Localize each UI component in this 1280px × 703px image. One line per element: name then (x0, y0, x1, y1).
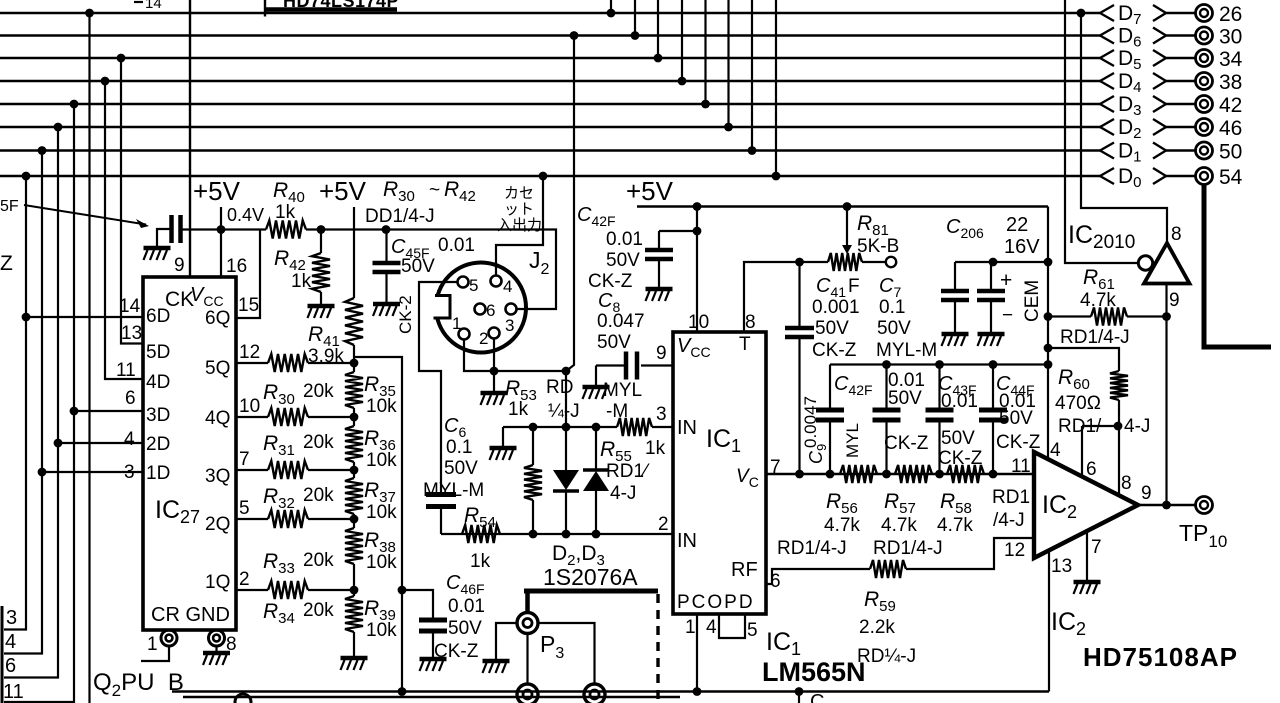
svg-text:2D: 2D (146, 434, 170, 455)
wire: P3 left ground leg (496, 623, 517, 659)
resistor R57 4.7k (895, 465, 932, 483)
diode D3 1S2076A (595, 427, 597, 470)
J2 pin 6 circle (475, 304, 486, 315)
svg-text:38: 38 (1219, 71, 1242, 94)
wire: J2 pin 4 riser to bus (496, 230, 543, 276)
inverter IC2010 triangle (1144, 243, 1190, 284)
IC HD74LS174P label (cut off) (134, 0, 399, 17)
wire: J2 pin 1 line (464, 340, 566, 372)
wire: +5V stub to pin16 (220, 207, 222, 277)
svg-text:50V: 50V (401, 256, 435, 277)
ground (C8) (583, 385, 610, 390)
capacitor C45F (385, 230, 387, 262)
svg-text:+5V: +5V (319, 176, 367, 206)
svg-text:2.2k: 2.2k (859, 617, 895, 638)
wire: bus drop to IC27 pin3 (1D) and exit 4 (4, 151, 42, 654)
svg-text:6: 6 (5, 655, 16, 677)
svg-text:5F: 5F (0, 198, 19, 215)
P3 top circle (517, 613, 538, 634)
svg-text:HD75108AP: HD75108AP (1083, 642, 1238, 672)
svg-text:CEM: CEM (1022, 280, 1043, 322)
svg-text:1: 1 (147, 634, 158, 655)
svg-text:T: T (739, 334, 751, 355)
svg-text:30: 30 (1219, 26, 1242, 49)
capacitor C46F 0.01 (419, 620, 447, 631)
wire: 74LS174 output drop to bus line 7 (751, 0, 753, 151)
svg-text:20k: 20k (303, 432, 334, 453)
resistor R31 20k row (236, 416, 268, 418)
wire: IC27 pin 9 clock line from top (189, 0, 191, 277)
svg-text:4D: 4D (146, 372, 170, 393)
svg-text:0.047: 0.047 (597, 311, 645, 332)
ground (ladder bottom) (341, 656, 368, 661)
resistor R53 1k (vertical) (532, 427, 534, 465)
wire: IC2010 input from top (1065, 0, 1138, 263)
wire: top node left ground stub (502, 427, 504, 447)
svg-text:9: 9 (174, 255, 185, 276)
capacitor C41F 0.001 (798, 262, 800, 326)
svg-text:Z: Z (0, 252, 13, 275)
wire: data bus line D4 with connector pin 38 (0, 70, 1242, 96)
svg-text:50V: 50V (999, 408, 1033, 429)
wire: data bus line D6 with connector pin 30 (0, 25, 1242, 51)
wire: IC2 pin 13 to bottom line (1048, 551, 1050, 692)
svg-text:RD1/: RD1/ (1058, 416, 1102, 437)
resistor R33 20k row (236, 518, 268, 520)
svg-text:6Q: 6Q (205, 308, 230, 329)
resistor R35 10k (ladder) (353, 363, 355, 372)
label cassette I/O (Japanese) (497, 185, 542, 234)
svg-text:PCOPD: PCOPD (677, 592, 755, 613)
IC27 pin 8 circle (209, 630, 225, 646)
wire: IC27 pin 1 stub (141, 646, 169, 661)
wire: data bus line D5 with connector pin 34 (0, 47, 1243, 73)
svg-text:LM565N: LM565N (762, 657, 866, 687)
svg-text:CK-Z: CK-Z (812, 340, 857, 361)
wire: DAC node to C46F (402, 590, 433, 618)
svg-text:1k: 1k (508, 399, 529, 420)
svg-text:20k: 20k (303, 550, 334, 571)
svg-text:1k: 1k (470, 551, 491, 572)
svg-text:1S2076A: 1S2076A (543, 564, 638, 590)
svg-text:9: 9 (656, 343, 667, 364)
J2 pin 5 circle (458, 277, 469, 288)
wire: data bus line D2 with connector pin 46 (0, 116, 1242, 142)
svg-text:9: 9 (1169, 290, 1180, 311)
svg-text:50V: 50V (444, 458, 478, 479)
svg-text:C: C (810, 691, 824, 703)
capacitor C44F (992, 365, 994, 409)
svg-text:50V: 50V (941, 428, 975, 449)
svg-text:3: 3 (505, 316, 514, 335)
svg-text:10k: 10k (366, 620, 397, 641)
connector P3 shield bar (524, 589, 658, 594)
svg-text:50V: 50V (888, 388, 922, 409)
capacitor C42F row (885, 365, 887, 409)
potentiometer R81 5K-B (828, 253, 862, 271)
wire: 0.4V line cap to R40 (181, 228, 267, 230)
svg-text:5: 5 (469, 276, 478, 295)
capacitor C42F (pin10 bypass) (659, 230, 697, 232)
wire: +5V to R41 (353, 207, 355, 298)
wire: 74LS174 output drop to bus line 1 (610, 0, 612, 13)
svg-text:470Ω: 470Ω (1055, 393, 1101, 414)
svg-text:7: 7 (239, 449, 250, 470)
svg-text:+5V: +5V (193, 176, 241, 206)
capacitor (CK filter) plates (172, 215, 181, 243)
IC U1 box (IC1 LM565N) (673, 332, 766, 614)
node: clamp junctions bottom (529, 530, 538, 539)
wire: bypass top line (955, 261, 1048, 263)
svg-text:50: 50 (1219, 141, 1242, 164)
svg-text:4: 4 (706, 617, 717, 638)
svg-text:RD1⁄: RD1⁄ (606, 461, 650, 482)
svg-text:5D: 5D (146, 342, 170, 363)
svg-text:0.4V: 0.4V (227, 205, 264, 225)
svg-text:2: 2 (479, 329, 488, 348)
svg-text:34: 34 (1219, 48, 1243, 71)
ground (IC27 pin 8) (203, 651, 230, 656)
svg-text:1k: 1k (645, 438, 666, 459)
svg-text:4.7k: 4.7k (1080, 290, 1116, 311)
capacitor C9 (829, 365, 831, 409)
resistor R41 3.9k (vertical) (345, 298, 363, 345)
svg-text:9: 9 (1141, 483, 1152, 504)
wire: R40 right node (306, 228, 386, 230)
svg-text:11: 11 (3, 681, 24, 703)
wire: 74LS174 output drop to bus line 5 (704, 0, 706, 104)
wire: IC27 pin 15 (236, 230, 260, 319)
ground (P3) (483, 659, 510, 664)
svg-text:F: F (848, 276, 860, 297)
svg-text:6D: 6D (146, 306, 170, 327)
resistor R34 20k row (236, 589, 268, 591)
svg-text:Q2PU B: Q2PU B (93, 669, 184, 700)
svg-text:カセ: カセ (504, 185, 534, 202)
svg-text:3: 3 (6, 607, 17, 629)
svg-text:CK-Z: CK-Z (434, 641, 479, 662)
svg-text:16: 16 (226, 256, 247, 277)
wire: IC1 pin 1 (696, 614, 698, 692)
svg-text:13: 13 (121, 323, 142, 344)
J2 pin 4 circle (491, 276, 502, 287)
svg-text:4Q: 4Q (205, 408, 230, 429)
svg-text:20k: 20k (303, 381, 334, 402)
capacitor C6 0.1 (426, 495, 456, 507)
wire: IC27 pin 8 to ground (215, 646, 217, 652)
svg-text:3: 3 (656, 404, 667, 425)
ground (C42F) (646, 287, 673, 292)
svg-text:11: 11 (116, 360, 136, 381)
wire: bottom common line (172, 690, 1049, 692)
svg-text:1k: 1k (275, 202, 296, 223)
wire: J2 pin 5 to C6 (419, 282, 458, 492)
svg-text:RD¼-J: RD¼-J (857, 646, 916, 667)
node: ladder junction (350, 586, 359, 595)
resistor R60 470ohm (1048, 348, 1119, 371)
wire: bus drop to IC27 pin11 (4D) (105, 81, 143, 379)
resistor R39 10k (ladder) (353, 564, 355, 596)
svg-text:5K-B: 5K-B (857, 236, 899, 257)
svg-text:0.0047: 0.0047 (801, 396, 820, 448)
wire: IC1 pin 10 (696, 207, 698, 333)
wire: bus drop to IC27 pin4 (2D) and exit 6 (4, 127, 58, 678)
svg-text:ット: ット (504, 201, 534, 218)
svg-text:¼-J: ¼-J (548, 401, 580, 422)
ground (C45F) (373, 302, 400, 307)
resistor R58 4.7k (947, 465, 984, 483)
resistor R37 10k (ladder) (353, 462, 355, 478)
J2 pin 3 circle (506, 304, 517, 315)
svg-text:1k: 1k (291, 271, 312, 292)
svg-text:14: 14 (145, 0, 162, 12)
dashed boundary line (656, 594, 659, 703)
wire: 74LS174 output drop to bus line 6 (727, 0, 729, 127)
svg-text:6: 6 (125, 388, 136, 409)
resistor R32 20k row (236, 469, 268, 471)
ground (IC2 pin 7) (1074, 580, 1101, 585)
resistor R42 1k (vertical) (320, 230, 322, 254)
wire: IC2010 output (1165, 284, 1167, 506)
svg-text:15: 15 (238, 295, 259, 316)
svg-text:10k: 10k (366, 502, 397, 523)
P3 bottom-left circle (517, 684, 538, 703)
svg-text:1: 1 (685, 617, 696, 638)
wire: bus drop to IC27 pin14 (6D) and exit 3 (4, 176, 26, 630)
svg-text:RD1: RD1 (992, 487, 1030, 508)
wire: DAC output down x=402 (354, 357, 402, 692)
svg-text:MYL: MYL (603, 380, 642, 401)
svg-text:8: 8 (1171, 224, 1182, 245)
svg-text:RD1/4-J: RD1/4-J (777, 538, 847, 559)
svg-text:0.1: 0.1 (879, 297, 905, 318)
svg-text:4-J: 4-J (610, 483, 636, 504)
wire: data bus line D3 with connector pin 42 (0, 93, 1242, 119)
svg-text:10k: 10k (366, 450, 397, 471)
resistor R30 20k row (236, 362, 268, 364)
IC U27 box (IC27 74LS174) (143, 277, 236, 630)
node: ladder junction (350, 413, 359, 422)
node: ladder junction (350, 515, 359, 524)
svg-text:12: 12 (239, 342, 260, 363)
capacitor C8 0.047 (596, 364, 626, 366)
svg-text:RD: RD (546, 377, 573, 398)
partial component box at bottom edge (183, 696, 680, 699)
svg-text:0.1: 0.1 (446, 437, 472, 458)
wire: 74LS174 output drop to bus line 8 (775, 0, 777, 176)
svg-text:4.7k: 4.7k (881, 515, 917, 536)
wire: data bus line D0 with connector pin 54 (0, 165, 1243, 191)
svg-text:RF: RF (731, 559, 758, 581)
wire: 74LS174 output drop to bus line 2 (634, 0, 636, 36)
wire: P3 top stub (525, 591, 530, 613)
svg-text:3: 3 (124, 462, 135, 483)
wire: bus drop to IC27 pin6 (3D) and exit 11 (4, 104, 74, 702)
svg-text:6: 6 (1086, 459, 1097, 480)
svg-text:12: 12 (1004, 540, 1025, 561)
svg-text:4.7k: 4.7k (937, 515, 973, 536)
testpoint TP10 circle (1196, 497, 1213, 514)
wire: left border of bottom-left exits (1, 606, 4, 703)
wire: 74LS174 output drop to bus line 4 (681, 0, 683, 81)
wire: stub below bottom line (798, 692, 800, 703)
svg-text:4: 4 (5, 631, 16, 653)
svg-text:MYL-M: MYL-M (876, 340, 937, 361)
svg-text:1: 1 (452, 314, 461, 333)
ground (C206) (978, 332, 1005, 337)
wire: cap left to ground (157, 229, 172, 247)
svg-text:2: 2 (658, 514, 669, 535)
svg-text:50V: 50V (877, 318, 911, 339)
wire: IC1 pins 4-5 strap (719, 614, 745, 638)
ground (R42) (308, 304, 335, 309)
svg-text:1D: 1D (146, 463, 170, 484)
svg-text:4: 4 (503, 277, 512, 296)
svg-text:0.001: 0.001 (812, 297, 860, 318)
wire: R39 to ground (353, 632, 355, 656)
svg-text:IN: IN (677, 417, 697, 439)
svg-text:−: − (1002, 305, 1013, 326)
ground (CK filter cap) (144, 246, 171, 251)
wire: +5V rail down right side (1047, 207, 1049, 460)
P3 bottom-right circle (584, 684, 605, 703)
svg-text:3D: 3D (146, 405, 170, 426)
svg-text:10k: 10k (366, 396, 397, 417)
svg-text:5Q: 5Q (205, 358, 230, 379)
resistor R54 1k (462, 525, 500, 543)
svg-text:RD1/4-J: RD1/4-J (1060, 327, 1130, 348)
svg-text:54: 54 (1219, 166, 1243, 189)
resistor R36 10k (ladder) (353, 408, 355, 426)
svg-text:50V: 50V (606, 250, 640, 271)
wire: R60 node to IC2 pins 6 and 8 (1082, 425, 1118, 427)
diode D2 1S2076A (565, 427, 567, 470)
wire: thick lead from pin 54 down and right (1204, 185, 1271, 348)
svg-text:26: 26 (1219, 3, 1242, 26)
wire: P3 right leg (538, 623, 595, 684)
svg-text:1Q: 1Q (205, 572, 230, 593)
J2 pin 2 circle (489, 328, 500, 339)
node: ladder junction (350, 466, 359, 475)
svg-text:+: + (1000, 269, 1012, 292)
svg-text:MYL: MYL (843, 423, 862, 458)
label Q2PU B (93, 669, 184, 700)
svg-text:4: 4 (124, 429, 135, 450)
svg-text:CK-Z: CK-Z (588, 271, 633, 292)
capacitor C43F (938, 365, 940, 409)
resistor R56 4.7k (840, 465, 877, 483)
capacitor C206 22uF 16V (990, 262, 992, 289)
svg-text:8: 8 (745, 312, 756, 333)
svg-text:50V: 50V (448, 618, 482, 639)
wire: D7 drop x=89 to bottom (88, 13, 90, 703)
ground (C7) (942, 332, 969, 337)
wire: J2 pin 2 to ground (493, 339, 495, 393)
svg-text:10: 10 (688, 312, 709, 333)
svg-text:7: 7 (1091, 537, 1102, 558)
resistor R59 2.2k (766, 569, 870, 584)
wire: IC1 pin 8 riser (744, 262, 828, 332)
connector J2 outer circle (436, 263, 526, 353)
svg-text:20k: 20k (303, 600, 334, 621)
capacitor C7 body (954, 262, 956, 289)
svg-text:50V: 50V (597, 332, 631, 353)
svg-text:4-J: 4-J (1124, 416, 1150, 437)
svg-text:20k: 20k (303, 485, 334, 506)
svg-text:CK-Z: CK-Z (884, 433, 929, 454)
svg-text:DD1/4-J: DD1/4-J (365, 206, 435, 227)
label 5F with arrow to capacitor (0, 198, 149, 228)
svg-text:/4-J: /4-J (993, 510, 1025, 531)
wire: 0.4V jog to J2 pin 3 (517, 230, 557, 310)
ground (J2 pin 2) (481, 391, 508, 396)
wire: +5V rail (637, 205, 1048, 207)
svg-text:~: ~ (429, 180, 440, 201)
svg-text:4: 4 (1050, 440, 1061, 461)
svg-text:CR GND: CR GND (151, 604, 230, 626)
svg-text:-M: -M (606, 401, 628, 422)
svg-text:0.01: 0.01 (606, 229, 643, 250)
svg-text:0.01: 0.01 (448, 596, 485, 617)
comparator IC2 triangle (1034, 452, 1138, 558)
svg-text:CK-2: CK-2 (396, 295, 415, 334)
wire: P3 center leg (526, 634, 528, 685)
wire: data bus line D1 with connector pin 50 (0, 140, 1242, 166)
node: clamp junctions top (529, 423, 538, 432)
connector J2 key notch (429, 295, 453, 319)
ground (C46F) (420, 657, 447, 662)
svg-text:42: 42 (1219, 94, 1242, 117)
IC27 pin 1 circle (161, 630, 177, 646)
svg-text:3Q: 3Q (205, 466, 230, 487)
resistor R55 1k (617, 418, 652, 436)
node: ladder top (350, 359, 359, 368)
resistor R61 4.7k (1048, 315, 1091, 317)
wire: 0.4V line to J2 (386, 228, 543, 230)
svg-text:14: 14 (119, 296, 141, 317)
svg-text:8: 8 (1121, 473, 1132, 494)
node: +5V/pin16 junction (217, 225, 226, 234)
wire: bus drop to IC27 pin13 (5D) (121, 58, 143, 344)
wire: pin7 row line (766, 473, 1034, 475)
svg-text:2: 2 (239, 569, 250, 590)
ground (top clamp node) (490, 446, 517, 451)
svg-text:2Q: 2Q (205, 514, 230, 535)
wire: D7 to IC2010 pin 8 (1081, 13, 1167, 243)
svg-text:0.01: 0.01 (941, 391, 978, 412)
wire: IC2 output to TP10 (1138, 504, 1195, 506)
wire: cassette line from bus line D6 (566, 36, 574, 428)
wire: caps row top line (830, 363, 1048, 365)
wire: IC2 pin 7 to ground (1086, 532, 1088, 580)
svg-text:16V: 16V (1004, 236, 1040, 258)
resistor R38 10k (ladder) (353, 514, 355, 528)
svg-text:RD1/4-J: RD1/4-J (873, 538, 943, 559)
svg-text:46: 46 (1219, 117, 1242, 140)
resistor R40 1k (266, 221, 306, 239)
svg-text:IN: IN (677, 530, 697, 552)
svg-text:MYL-M: MYL-M (423, 480, 484, 501)
svg-text:4.7k: 4.7k (824, 515, 860, 536)
wire: bottom clamp node line (441, 533, 673, 535)
svg-text:50V: 50V (815, 318, 849, 339)
svg-text:11: 11 (1011, 456, 1031, 477)
svg-text:5: 5 (239, 498, 250, 519)
svg-text:10: 10 (239, 396, 260, 417)
svg-text:22: 22 (1006, 214, 1028, 236)
wire: top clamp node line (503, 426, 617, 428)
svg-text:0.01: 0.01 (438, 235, 475, 256)
